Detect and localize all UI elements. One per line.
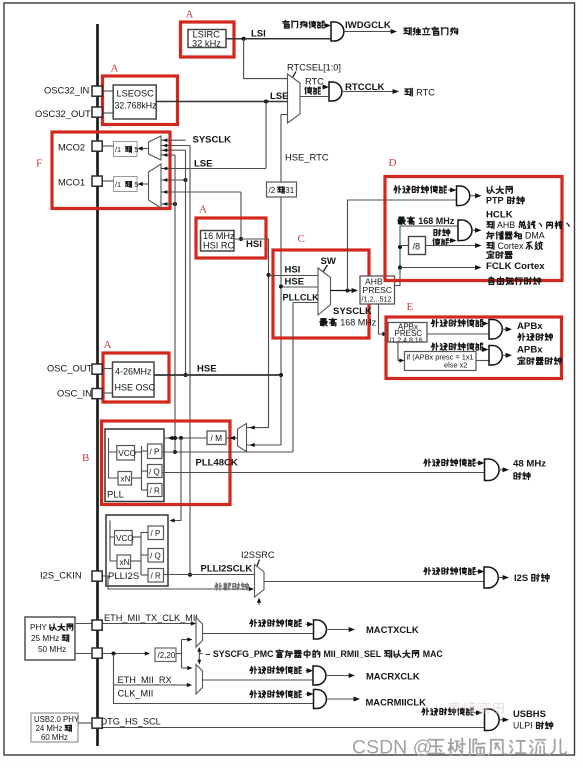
svg-text:A: A xyxy=(199,204,207,216)
svg-text:USBHS: USBHS xyxy=(513,708,546,719)
svg-text:/8: /8 xyxy=(413,242,421,252)
svg-text:HSI: HSI xyxy=(246,239,262,250)
svg-text:ETH_MII_RX_: ETH_MII_RX_ xyxy=(118,675,178,685)
svg-text:E: E xyxy=(407,301,414,313)
svg-text:24 MHz: 24 MHz xyxy=(36,724,65,733)
svg-text:31: 31 xyxy=(285,186,294,195)
svg-text:LSE: LSE xyxy=(194,159,212,170)
svg-text:MCO2: MCO2 xyxy=(58,142,85,153)
svg-text:/ P: / P xyxy=(151,529,161,538)
svg-text:LSI: LSI xyxy=(251,29,266,40)
svg-text:60 MHz: 60 MHz xyxy=(41,733,68,742)
svg-text:SYSCLK: SYSCLK xyxy=(333,306,372,317)
svg-text:A: A xyxy=(104,339,112,351)
svg-text:/1: /1 xyxy=(115,180,123,189)
svg-text:/2,20: /2,20 xyxy=(158,651,176,660)
svg-text:MACTXCLK: MACTXCLK xyxy=(366,624,419,635)
svg-text:else x2: else x2 xyxy=(444,361,467,370)
svg-text:I2S: I2S xyxy=(514,572,531,583)
svg-text:MAC: MAC xyxy=(420,649,443,659)
svg-text:5: 5 xyxy=(132,145,138,154)
svg-text:D: D xyxy=(389,157,397,169)
svg-text:USB2.0 PHY: USB2.0 PHY xyxy=(34,715,80,724)
svg-text:ULPI: ULPI xyxy=(513,721,535,731)
svg-text:25 MHz: 25 MHz xyxy=(31,634,61,643)
svg-text:SW: SW xyxy=(321,256,337,267)
svg-text:HSI RC: HSI RC xyxy=(203,241,235,251)
svg-text:MACRXCLK: MACRXCLK xyxy=(366,671,420,682)
svg-text:HSE: HSE xyxy=(285,277,305,288)
svg-text:RTC: RTC xyxy=(305,77,324,87)
svg-text:MACRMIICLK: MACRMIICLK xyxy=(366,697,427,708)
svg-text:I2SSRC: I2SSRC xyxy=(241,550,275,560)
svg-text:IWDGCLK: IWDGCLK xyxy=(345,20,391,31)
svg-text:DMA: DMA xyxy=(523,231,545,241)
svg-text:PLL48CK: PLL48CK xyxy=(196,458,238,469)
svg-text:FCLK Cortex: FCLK Cortex xyxy=(486,261,545,272)
svg-text:168 MHz: 168 MHz xyxy=(338,318,377,328)
svg-text:RTCCLK: RTCCLK xyxy=(345,82,385,93)
svg-text:HSE_RTC: HSE_RTC xyxy=(285,152,329,163)
svg-text:/ M: / M xyxy=(211,433,223,443)
svg-text:16 MHz: 16 MHz xyxy=(203,231,235,241)
svg-text:OSC_OUT: OSC_OUT xyxy=(47,363,93,374)
svg-text:HSI: HSI xyxy=(285,265,301,276)
svg-text:VCO: VCO xyxy=(118,449,136,458)
svg-text:/ Q: / Q xyxy=(149,467,160,476)
svg-text:/ P: / P xyxy=(150,447,160,456)
svg-text:HSE: HSE xyxy=(197,364,217,375)
svg-text:32.768kHz: 32.768kHz xyxy=(115,101,157,111)
svg-text:168 MHz: 168 MHz xyxy=(416,216,455,226)
svg-text:LSE: LSE xyxy=(270,91,288,102)
svg-text:HSE OSC: HSE OSC xyxy=(115,383,156,393)
svg-text:/1,2,..512: /1,2,..512 xyxy=(362,295,392,304)
svg-text:PLLCLK: PLLCLK xyxy=(283,293,320,303)
svg-text:OTG_HS_SCL: OTG_HS_SCL xyxy=(100,717,161,727)
svg-text:PLL: PLL xyxy=(107,490,124,501)
svg-text:xN: xN xyxy=(120,558,130,567)
svg-text:Cortex: Cortex xyxy=(495,241,526,251)
svg-text:PLLI2SCLK: PLLI2SCLK xyxy=(201,564,253,575)
svg-text:50 MHz: 50 MHz xyxy=(38,645,66,654)
svg-text:4-26MHz: 4-26MHz xyxy=(115,367,152,377)
svg-text:HCLK: HCLK xyxy=(486,210,513,221)
svg-text:PRESC: PRESC xyxy=(363,285,393,295)
svg-text:RTC: RTC xyxy=(414,88,436,98)
svg-text:F: F xyxy=(36,158,42,170)
svg-text:CLK_MII: CLK_MII xyxy=(118,689,154,699)
svg-text:/1: /1 xyxy=(115,145,123,154)
svg-text:/ R: / R xyxy=(151,571,161,580)
svg-text:A: A xyxy=(111,63,119,75)
svg-text:/ R: / R xyxy=(150,487,160,496)
svg-text:OSC_IN: OSC_IN xyxy=(57,388,92,399)
svg-text:A: A xyxy=(186,9,194,21)
svg-text:APBx: APBx xyxy=(517,345,543,356)
svg-text:OSC32_OUT: OSC32_OUT xyxy=(35,108,91,119)
svg-text:xN: xN xyxy=(121,475,131,484)
svg-text:AHB: AHB xyxy=(495,220,517,230)
svg-text:I2S_CKIN: I2S_CKIN xyxy=(40,570,82,581)
svg-text:APBx: APBx xyxy=(517,321,543,332)
svg-text:PTP: PTP xyxy=(486,196,506,206)
svg-text:/ Q: / Q xyxy=(150,551,161,560)
svg-text:PHY: PHY xyxy=(30,623,49,632)
svg-text:5: 5 xyxy=(132,180,138,189)
svg-text:LSEOSC: LSEOSC xyxy=(117,89,155,99)
svg-text:RTCSEL[1:0]: RTCSEL[1:0] xyxy=(287,63,341,73)
svg-text:32 kHz: 32 kHz xyxy=(192,39,221,49)
svg-text:ETH_MII_TX_CLK_MII: ETH_MII_TX_CLK_MII xyxy=(104,613,198,623)
svg-text:PLLI2S: PLLI2S xyxy=(108,571,139,582)
svg-text:– SYSCFG_PMC: – SYSCFG_PMC xyxy=(206,649,276,659)
svg-text:/1,2,4,8,16: /1,2,4,8,16 xyxy=(390,337,423,344)
svg-text:VCO: VCO xyxy=(116,534,134,543)
svg-text:C: C xyxy=(298,233,305,245)
svg-text:B: B xyxy=(82,452,89,464)
svg-text:/2: /2 xyxy=(269,186,276,195)
svg-text:MCO1: MCO1 xyxy=(58,177,85,188)
svg-text:48 MHz: 48 MHz xyxy=(513,459,546,470)
svg-text:MII_RMII_SEL: MII_RMII_SEL xyxy=(321,649,383,659)
svg-text:CSDN @: CSDN @ xyxy=(352,737,432,759)
svg-text:SYSCLK: SYSCLK xyxy=(193,135,232,146)
svg-text:OSC32_IN: OSC32_IN xyxy=(44,85,89,96)
